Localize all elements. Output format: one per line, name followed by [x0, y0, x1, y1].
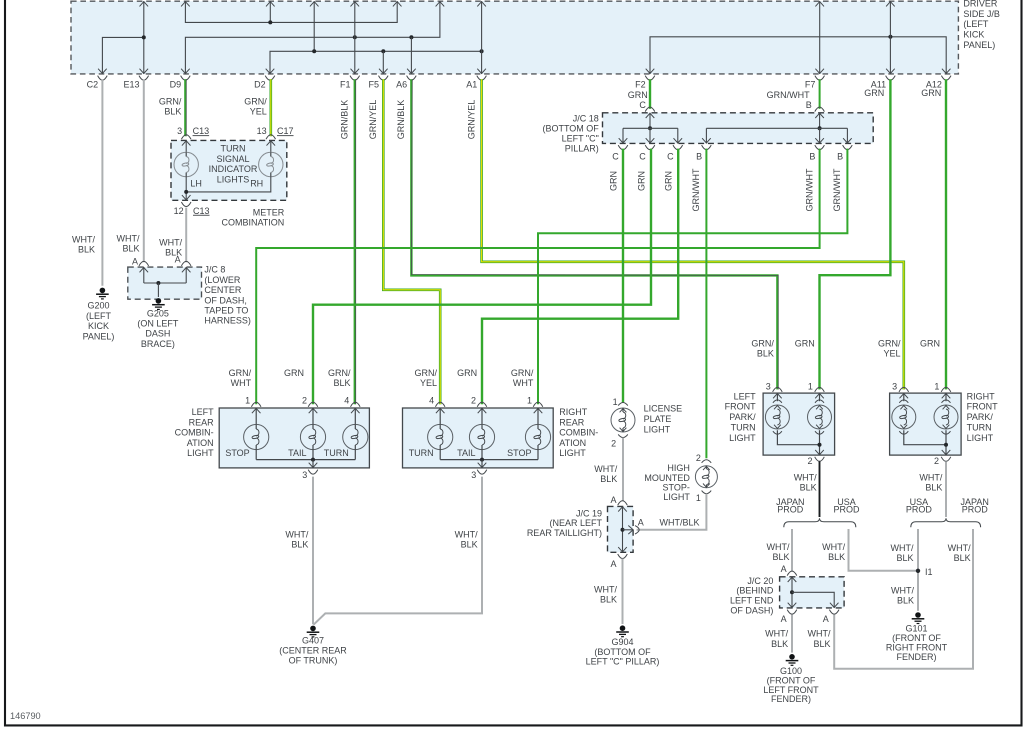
svg-text:STOP: STOP [507, 448, 531, 458]
svg-text:INDICATOR: INDICATOR [209, 164, 258, 174]
svg-text:TAIL: TAIL [457, 448, 475, 458]
svg-text:LIGHT: LIGHT [967, 433, 994, 443]
svg-text:PROD: PROD [833, 505, 860, 515]
svg-text:WHT/BLK: WHT/BLK [659, 518, 699, 528]
svg-text:PROD: PROD [906, 505, 933, 515]
svg-text:YEL: YEL [250, 107, 267, 117]
svg-text:GRN/WHT: GRN/WHT [691, 168, 701, 211]
svg-text:BLK: BLK [600, 595, 617, 605]
svg-text:GRN/: GRN/ [229, 368, 252, 378]
svg-text:BLK: BLK [461, 539, 478, 549]
svg-text:ATION: ATION [187, 438, 214, 448]
svg-text:BLK: BLK [828, 552, 845, 562]
svg-text:(LEFT: (LEFT [963, 19, 989, 29]
svg-text:GRN/: GRN/ [244, 97, 267, 107]
svg-text:4: 4 [429, 395, 434, 405]
svg-text:BLK: BLK [771, 639, 788, 649]
svg-text:WHT/: WHT/ [455, 529, 478, 539]
svg-text:FENDER): FENDER) [897, 652, 937, 662]
svg-text:DASH: DASH [145, 329, 170, 339]
svg-text:LH: LH [190, 179, 202, 189]
svg-text:GRN/: GRN/ [328, 368, 351, 378]
svg-text:BLK: BLK [164, 107, 181, 117]
svg-text:KICK: KICK [88, 321, 109, 331]
svg-text:PROD: PROD [962, 505, 989, 515]
svg-text:WHT/: WHT/ [159, 238, 182, 248]
svg-text:TAIL: TAIL [288, 448, 306, 458]
svg-text:LEFT "C" PILLAR): LEFT "C" PILLAR) [586, 656, 660, 666]
svg-text:LIGHT: LIGHT [729, 433, 756, 443]
svg-text:WHT/: WHT/ [285, 529, 308, 539]
svg-text:TAPED TO: TAPED TO [204, 306, 248, 316]
svg-text:12: 12 [174, 206, 184, 216]
svg-text:GRN: GRN [284, 368, 304, 378]
svg-text:(LEFT: (LEFT [86, 311, 112, 321]
svg-text:A: A [610, 559, 616, 569]
svg-text:OF DASH): OF DASH) [730, 606, 773, 616]
svg-text:WHT/: WHT/ [594, 464, 617, 474]
svg-text:CENTER: CENTER [204, 285, 242, 295]
svg-text:A: A [610, 495, 616, 505]
svg-text:1: 1 [527, 395, 532, 405]
svg-text:(BOTTOM OF: (BOTTOM OF [542, 124, 599, 134]
svg-text:DRIVER: DRIVER [963, 0, 998, 9]
svg-text:I1: I1 [925, 567, 933, 577]
svg-text:BLK: BLK [600, 474, 617, 484]
svg-text:RIGHT: RIGHT [967, 391, 996, 401]
svg-text:B: B [696, 152, 702, 162]
svg-text:(BOTTOM OF: (BOTTOM OF [594, 647, 651, 657]
svg-text:C13: C13 [193, 126, 210, 136]
svg-text:A: A [175, 255, 181, 265]
svg-text:ATION: ATION [559, 438, 586, 448]
svg-text:(NEAR LEFT: (NEAR LEFT [549, 518, 602, 528]
svg-text:OF TRUNK): OF TRUNK) [289, 655, 338, 665]
svg-text:1: 1 [808, 381, 813, 391]
svg-text:3: 3 [302, 470, 307, 480]
svg-text:WHT/: WHT/ [891, 586, 914, 596]
svg-text:GRN: GRN [628, 90, 648, 100]
svg-text:PILLAR): PILLAR) [565, 144, 599, 154]
svg-text:WHT/: WHT/ [891, 543, 914, 553]
svg-text:KICK: KICK [963, 30, 984, 40]
svg-text:REAR: REAR [559, 417, 585, 427]
svg-text:GRN/WHT: GRN/WHT [767, 90, 810, 100]
svg-text:LICENSE: LICENSE [644, 404, 683, 414]
svg-text:REAR TAILLIGHT): REAR TAILLIGHT) [527, 528, 602, 538]
svg-text:13: 13 [257, 126, 267, 136]
svg-text:STOP: STOP [225, 448, 249, 458]
svg-text:TURN: TURN [324, 448, 349, 458]
svg-text:FRONT: FRONT [967, 402, 998, 412]
svg-text:1: 1 [245, 395, 250, 405]
svg-text:LIGHTS: LIGHTS [217, 174, 250, 184]
svg-text:(FRONT OF: (FRONT OF [892, 633, 941, 643]
svg-text:G407: G407 [302, 635, 324, 645]
svg-text:LEFT: LEFT [192, 407, 215, 417]
svg-text:LEFT "C": LEFT "C" [562, 134, 599, 144]
svg-text:REAR: REAR [189, 417, 215, 427]
svg-text:RIGHT: RIGHT [559, 407, 588, 417]
svg-text:FENDER): FENDER) [771, 694, 811, 704]
svg-text:LIGHT: LIGHT [559, 448, 586, 458]
svg-text:A: A [638, 517, 644, 527]
svg-text:G200: G200 [87, 301, 109, 311]
svg-text:WHT/: WHT/ [767, 542, 790, 552]
svg-text:STOP-: STOP- [663, 483, 690, 493]
svg-text:C: C [612, 152, 619, 162]
svg-text:PLATE: PLATE [644, 414, 672, 424]
svg-text:WHT/: WHT/ [948, 543, 971, 553]
svg-text:WHT/: WHT/ [794, 473, 817, 483]
svg-text:TURN: TURN [967, 423, 992, 433]
svg-text:PARK/: PARK/ [729, 412, 756, 422]
svg-text:(LOWER: (LOWER [204, 275, 241, 285]
svg-text:GRN: GRN [457, 368, 477, 378]
svg-text:C: C [639, 152, 646, 162]
svg-text:SIGNAL: SIGNAL [216, 154, 249, 164]
svg-text:WHT/: WHT/ [117, 234, 140, 244]
svg-text:BLK: BLK [813, 639, 830, 649]
svg-text:2: 2 [471, 395, 476, 405]
svg-text:LIGHT: LIGHT [187, 448, 214, 458]
svg-text:GRN/YEL: GRN/YEL [466, 100, 476, 140]
svg-text:BLK: BLK [800, 482, 817, 492]
svg-text:GRN/: GRN/ [751, 339, 774, 349]
svg-text:PROD: PROD [777, 505, 804, 515]
svg-text:J/C 18: J/C 18 [573, 114, 599, 124]
svg-text:WHT: WHT [231, 378, 252, 388]
svg-text:2: 2 [696, 453, 701, 463]
svg-text:GRN: GRN [920, 339, 940, 349]
svg-text:(ON LEFT: (ON LEFT [137, 319, 179, 329]
svg-text:GRN/: GRN/ [415, 368, 438, 378]
svg-text:GRN: GRN [921, 88, 941, 98]
svg-text:BLK: BLK [772, 552, 789, 562]
svg-text:2: 2 [934, 456, 939, 466]
svg-text:PANEL): PANEL) [963, 40, 995, 50]
svg-text:(BEHIND: (BEHIND [736, 586, 774, 596]
svg-text:BLK: BLK [333, 378, 350, 388]
svg-text:PANEL): PANEL) [83, 331, 115, 341]
svg-text:YEL: YEL [883, 349, 900, 359]
svg-text:F1: F1 [340, 79, 351, 89]
svg-text:GRN/: GRN/ [878, 339, 901, 349]
svg-text:3: 3 [177, 126, 182, 136]
svg-text:G101: G101 [905, 624, 927, 634]
svg-text:COMBIN-: COMBIN- [559, 428, 598, 438]
svg-text:1: 1 [696, 493, 701, 503]
svg-text:BLK: BLK [291, 539, 308, 549]
svg-text:A1: A1 [466, 79, 477, 89]
svg-text:C17: C17 [277, 126, 294, 136]
svg-text:LIGHT: LIGHT [663, 492, 690, 502]
svg-text:F2: F2 [635, 79, 646, 89]
svg-text:TURN: TURN [731, 423, 756, 433]
svg-text:HIGH: HIGH [667, 463, 690, 473]
svg-text:C: C [639, 100, 646, 110]
svg-text:3: 3 [471, 470, 476, 480]
svg-text:A: A [781, 564, 787, 574]
svg-text:OF DASH,: OF DASH, [204, 295, 247, 305]
svg-text:C: C [667, 152, 674, 162]
svg-text:3: 3 [892, 381, 897, 391]
svg-text:BLK: BLK [925, 482, 942, 492]
svg-text:WHT/: WHT/ [594, 584, 617, 594]
svg-text:B: B [809, 152, 815, 162]
svg-text:RIGHT FRONT: RIGHT FRONT [886, 643, 948, 653]
svg-text:GRN/YEL: GRN/YEL [368, 100, 378, 140]
svg-text:MOUNTED: MOUNTED [644, 473, 690, 483]
svg-text:TURN: TURN [409, 448, 434, 458]
svg-text:BLK: BLK [897, 595, 914, 605]
svg-text:A6: A6 [396, 79, 407, 89]
svg-text:F5: F5 [368, 79, 379, 89]
svg-text:A: A [781, 614, 787, 624]
svg-text:1: 1 [934, 381, 939, 391]
svg-text:WHT/: WHT/ [765, 629, 788, 639]
svg-text:BLK: BLK [122, 244, 139, 254]
svg-text:(CENTER REAR: (CENTER REAR [279, 645, 347, 655]
svg-text:WHT: WHT [513, 378, 534, 388]
svg-text:146790: 146790 [10, 711, 41, 721]
svg-text:BRACE): BRACE) [141, 339, 175, 349]
svg-text:BLK: BLK [78, 245, 95, 255]
svg-text:PARK/: PARK/ [967, 412, 994, 422]
svg-text:METER: METER [253, 208, 285, 218]
svg-text:WHT/: WHT/ [822, 542, 845, 552]
svg-text:C2: C2 [87, 79, 99, 89]
svg-text:D9: D9 [170, 79, 182, 89]
svg-text:GRN/: GRN/ [511, 368, 534, 378]
svg-text:2: 2 [807, 456, 812, 466]
svg-text:GRN: GRN [609, 171, 619, 191]
svg-text:GRN: GRN [795, 339, 815, 349]
svg-text:LEFT: LEFT [734, 391, 757, 401]
svg-text:2: 2 [611, 438, 616, 448]
svg-text:GRN/WHT: GRN/WHT [804, 168, 814, 211]
svg-text:BLK: BLK [757, 349, 774, 359]
svg-text:C13: C13 [193, 206, 210, 216]
svg-text:WHT/: WHT/ [72, 235, 95, 245]
svg-text:GRN/BLK: GRN/BLK [340, 100, 350, 140]
svg-text:TURN: TURN [221, 144, 246, 154]
svg-text:GRN/: GRN/ [159, 97, 182, 107]
svg-text:WHT/: WHT/ [808, 629, 831, 639]
svg-text:G205: G205 [147, 308, 169, 318]
svg-text:2: 2 [302, 395, 307, 405]
svg-text:J/C 8: J/C 8 [204, 265, 225, 275]
svg-text:G904: G904 [611, 637, 633, 647]
svg-text:BLK: BLK [896, 553, 913, 563]
svg-text:A: A [823, 614, 829, 624]
svg-text:F7: F7 [805, 79, 816, 89]
svg-text:BLK: BLK [954, 553, 971, 563]
svg-text:3: 3 [766, 381, 771, 391]
svg-text:D2: D2 [254, 79, 266, 89]
svg-text:GRN: GRN [864, 88, 884, 98]
svg-text:WHT/: WHT/ [919, 473, 942, 483]
svg-text:RH: RH [250, 179, 263, 189]
svg-text:B: B [806, 100, 812, 110]
svg-text:1: 1 [613, 397, 618, 407]
svg-text:YEL: YEL [420, 378, 437, 388]
svg-text:J/C 20: J/C 20 [747, 576, 773, 586]
svg-text:COMBIN-: COMBIN- [175, 428, 214, 438]
svg-text:E13: E13 [123, 79, 139, 89]
svg-text:LIGHT: LIGHT [644, 424, 671, 434]
svg-text:SIDE J/B: SIDE J/B [963, 9, 1000, 19]
svg-text:LEFT END: LEFT END [730, 596, 774, 606]
svg-text:GRN: GRN [663, 171, 673, 191]
svg-text:B: B [837, 152, 843, 162]
svg-text:HARNESS): HARNESS) [204, 316, 251, 326]
svg-text:J/C 19: J/C 19 [576, 508, 602, 518]
svg-text:COMBINATION: COMBINATION [221, 217, 284, 227]
svg-text:GRN/WHT: GRN/WHT [832, 168, 842, 211]
svg-text:4: 4 [344, 395, 349, 405]
svg-text:A: A [132, 257, 138, 267]
svg-text:GRN/BLK: GRN/BLK [396, 100, 406, 140]
svg-text:GRN: GRN [637, 171, 647, 191]
svg-text:FRONT: FRONT [725, 402, 756, 412]
